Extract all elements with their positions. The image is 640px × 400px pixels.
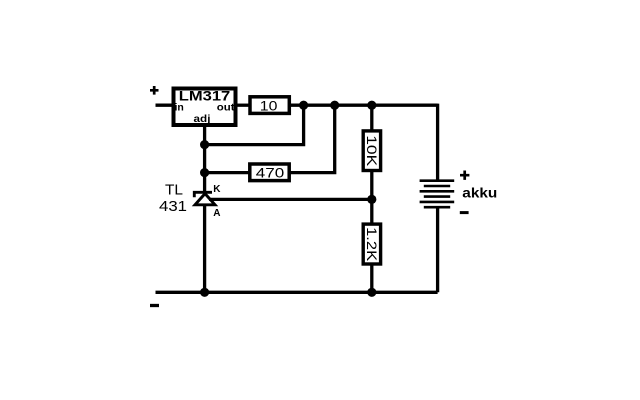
wire R4 down to bottom rail (370, 263, 373, 292)
wire node B down to R2 right side (289, 105, 335, 172)
battery BT1 plate short 3 (424, 206, 450, 209)
terminal - (negative supply) (150, 304, 159, 307)
node dot adj line lower (200, 168, 209, 177)
svg-text:K: K (213, 184, 221, 195)
wire adj pin vertical (203, 124, 206, 192)
svg-text:1.2K: 1.2K (364, 227, 380, 262)
node dot output rail C (10K branch) (367, 101, 376, 110)
svg-text:in: in (175, 101, 184, 113)
terminal + (positive supply input) (150, 86, 159, 95)
resistor R3 10K box (363, 131, 380, 171)
wire output rail down to R3 (370, 105, 373, 132)
wire right vertical top to battery (436, 104, 439, 181)
node dot adj line upper (200, 140, 209, 149)
IC U1 LM317 regulator box (174, 89, 236, 126)
node dot divider (367, 195, 376, 204)
wire LM317 out to R1 (236, 104, 251, 107)
shunt regulator U2 TL431 cathode bar (194, 192, 212, 197)
wire top output rail (289, 104, 438, 107)
wire bottom rail (156, 291, 438, 294)
wire TL431 anode down to bottom rail (203, 205, 206, 292)
wire TL431 ref to divider node (209, 198, 372, 201)
svg-text:out: out (217, 101, 235, 113)
svg-text:431: 431 (159, 199, 187, 215)
label battery + (460, 171, 469, 180)
node dot output rail A (299, 101, 308, 110)
wire battery to bottom rail (436, 207, 439, 292)
svg-text:TL: TL (165, 182, 183, 198)
battery BT1 plate long 2 (420, 190, 455, 193)
battery BT1 plate short 1 (424, 185, 450, 188)
wire adj to R2 left side (205, 171, 251, 174)
wire node A down and left to adj line (205, 105, 304, 144)
svg-text:A: A (213, 208, 220, 219)
wire input stub to LM317 in (156, 104, 174, 107)
resistor R4 1.2K box (363, 224, 380, 264)
resistor R2 470 box (250, 164, 289, 181)
shunt regulator U2 TL431 triangle (195, 194, 215, 205)
resistor R1 10 box (250, 97, 289, 114)
svg-text:10: 10 (260, 97, 278, 113)
svg-text:10K: 10K (364, 135, 380, 167)
svg-text:470: 470 (256, 164, 285, 180)
label battery - (460, 211, 469, 214)
battery BT1 plate short 2 (424, 195, 450, 198)
svg-text:akku: akku (462, 184, 497, 200)
svg-text:adj: adj (194, 113, 211, 125)
battery BT1 plate long 1 (420, 179, 455, 182)
node dot output rail B (330, 101, 339, 110)
node dot bottom rail right (367, 288, 376, 297)
wire R3 to divider node (370, 170, 373, 226)
node dot bottom rail left (200, 288, 209, 297)
battery BT1 plate long 3 (420, 201, 455, 204)
